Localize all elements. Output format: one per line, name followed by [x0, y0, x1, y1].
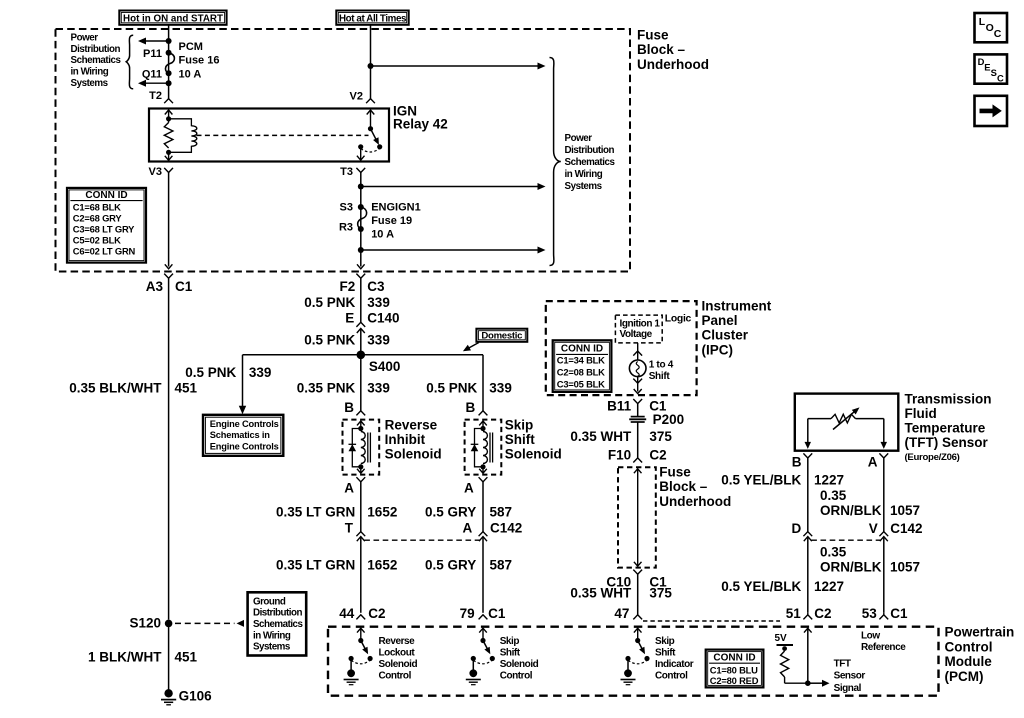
- svg-text:Indicator: Indicator: [655, 659, 694, 670]
- svg-text:Shift: Shift: [500, 648, 521, 659]
- svg-text:0.5 PNK: 0.5 PNK: [426, 381, 477, 396]
- svg-text:10 A: 10 A: [371, 228, 394, 240]
- svg-text:1 to 4: 1 to 4: [649, 360, 674, 371]
- svg-text:Schematics: Schematics: [565, 157, 616, 168]
- svg-text:C1: C1: [890, 606, 908, 621]
- svg-text:B11: B11: [607, 399, 632, 414]
- svg-text:C3=68 LT GRY: C3=68 LT GRY: [73, 224, 135, 235]
- svg-text:Powertrain: Powertrain: [945, 625, 1015, 640]
- svg-text:Skip: Skip: [505, 417, 534, 432]
- svg-text:Fuse 16: Fuse 16: [179, 55, 220, 67]
- svg-text:C1=68 BLK: C1=68 BLK: [73, 202, 121, 213]
- svg-text:(IPC): (IPC): [702, 342, 734, 357]
- svg-text:0.5 GRY: 0.5 GRY: [425, 504, 476, 519]
- svg-text:Skip: Skip: [655, 636, 675, 647]
- svg-text:C140: C140: [367, 311, 399, 326]
- svg-text:C2: C2: [649, 448, 666, 463]
- svg-text:1 BLK/WHT: 1 BLK/WHT: [88, 650, 162, 665]
- svg-text:P200: P200: [653, 412, 685, 427]
- svg-text:(Europe/Z06): (Europe/Z06): [905, 452, 960, 463]
- svg-text:Systems: Systems: [71, 78, 109, 89]
- svg-text:0.35 PNK: 0.35 PNK: [297, 381, 356, 396]
- svg-text:Reverse: Reverse: [379, 636, 416, 647]
- svg-text:in Wiring: in Wiring: [253, 630, 291, 641]
- svg-text:T: T: [345, 521, 354, 536]
- svg-text:Shift: Shift: [649, 371, 671, 382]
- svg-text:Shift: Shift: [505, 432, 535, 447]
- svg-text:Transmission: Transmission: [905, 391, 992, 406]
- svg-text:B: B: [344, 400, 354, 415]
- svg-text:Distribution: Distribution: [253, 608, 302, 619]
- svg-text:ENGIGN1: ENGIGN1: [371, 202, 421, 214]
- svg-text:C1: C1: [488, 606, 506, 621]
- svg-text:F2: F2: [340, 279, 356, 294]
- svg-text:0.35 LT GRN: 0.35 LT GRN: [276, 558, 355, 573]
- svg-text:(TFT) Sensor: (TFT) Sensor: [905, 435, 989, 450]
- svg-text:Engine Controls: Engine Controls: [210, 419, 279, 429]
- svg-text:ORN/BLK: ORN/BLK: [820, 560, 882, 575]
- svg-text:Systems: Systems: [565, 181, 603, 192]
- svg-text:Hot at All Times: Hot at All Times: [339, 13, 407, 24]
- svg-text:451: 451: [175, 650, 198, 665]
- svg-text:Fuse 19: Fuse 19: [371, 215, 412, 227]
- svg-text:Block –: Block –: [659, 479, 708, 494]
- svg-text:A: A: [868, 455, 878, 470]
- svg-text:S120: S120: [129, 615, 161, 630]
- svg-text:S: S: [991, 67, 997, 78]
- svg-text:375: 375: [649, 586, 672, 601]
- svg-text:0.5 PNK: 0.5 PNK: [304, 295, 355, 310]
- svg-text:A: A: [464, 480, 474, 495]
- svg-text:C1=80 BLU: C1=80 BLU: [710, 665, 758, 676]
- svg-text:1652: 1652: [367, 558, 397, 573]
- svg-text:Shift: Shift: [655, 648, 676, 659]
- svg-text:Logic: Logic: [665, 314, 692, 325]
- svg-text:P11: P11: [143, 48, 162, 60]
- svg-text:0.35: 0.35: [820, 545, 847, 560]
- svg-text:C5=02 BLK: C5=02 BLK: [73, 234, 121, 245]
- svg-text:53: 53: [862, 606, 878, 621]
- svg-text:A: A: [463, 521, 473, 536]
- svg-text:1227: 1227: [814, 579, 844, 594]
- svg-text:0.35 WHT: 0.35 WHT: [570, 586, 632, 601]
- svg-text:339: 339: [249, 365, 272, 380]
- svg-text:Schematics: Schematics: [253, 619, 304, 630]
- svg-text:Fluid: Fluid: [905, 406, 937, 421]
- svg-text:Fuse: Fuse: [659, 465, 691, 480]
- svg-text:5V: 5V: [775, 633, 788, 644]
- svg-text:Control: Control: [379, 671, 412, 682]
- svg-text:Cluster: Cluster: [702, 328, 749, 343]
- svg-text:Reverse: Reverse: [385, 417, 438, 432]
- svg-text:CONN ID: CONN ID: [561, 343, 603, 354]
- svg-text:C6=02 LT GRN: C6=02 LT GRN: [73, 245, 136, 256]
- svg-text:O: O: [986, 22, 994, 34]
- svg-text:CONN ID: CONN ID: [713, 652, 755, 663]
- svg-text:C1=34 BLK: C1=34 BLK: [557, 355, 605, 366]
- svg-text:R3: R3: [339, 221, 353, 233]
- svg-text:Voltage: Voltage: [620, 329, 653, 340]
- svg-text:Q11: Q11: [142, 68, 162, 80]
- svg-text:CONN ID: CONN ID: [85, 190, 127, 201]
- svg-text:(PCM): (PCM): [945, 669, 984, 684]
- svg-text:339: 339: [367, 295, 390, 310]
- svg-text:0.5 YEL/BLK: 0.5 YEL/BLK: [721, 579, 801, 594]
- svg-text:0.35: 0.35: [820, 488, 847, 503]
- svg-text:Solenoid: Solenoid: [385, 447, 442, 462]
- svg-text:C: C: [997, 72, 1004, 83]
- svg-text:339: 339: [367, 332, 390, 347]
- svg-text:Temperature: Temperature: [905, 421, 986, 436]
- svg-text:C2=08 BLK: C2=08 BLK: [557, 367, 605, 378]
- svg-text:Sensor: Sensor: [834, 671, 866, 682]
- svg-text:79: 79: [460, 606, 475, 621]
- svg-text:10 A: 10 A: [179, 68, 202, 80]
- svg-text:Schematics: Schematics: [71, 55, 122, 66]
- svg-text:Control: Control: [655, 671, 688, 682]
- svg-text:V3: V3: [149, 166, 162, 178]
- svg-text:C2: C2: [368, 606, 385, 621]
- svg-text:in Wiring: in Wiring: [71, 67, 109, 78]
- svg-text:51: 51: [786, 606, 802, 621]
- svg-text:Engine Controls: Engine Controls: [210, 441, 279, 451]
- svg-text:0.5 PNK: 0.5 PNK: [304, 332, 355, 347]
- svg-text:D: D: [792, 521, 802, 536]
- svg-text:Ignition 1: Ignition 1: [620, 318, 661, 329]
- svg-text:Instrument: Instrument: [702, 298, 772, 313]
- svg-text:C3: C3: [367, 279, 385, 294]
- svg-text:339: 339: [489, 381, 512, 396]
- svg-text:Distribution: Distribution: [565, 145, 615, 156]
- svg-text:0.5 YEL/BLK: 0.5 YEL/BLK: [721, 472, 801, 487]
- svg-text:Control: Control: [500, 671, 533, 682]
- svg-text:T2: T2: [149, 90, 162, 102]
- svg-text:0.35 BLK/WHT: 0.35 BLK/WHT: [69, 381, 162, 396]
- svg-text:V: V: [869, 521, 878, 536]
- svg-text:A3: A3: [146, 279, 164, 294]
- svg-text:Panel: Panel: [702, 313, 738, 328]
- svg-text:PCM: PCM: [179, 41, 203, 53]
- svg-text:Fuse: Fuse: [637, 28, 669, 43]
- svg-text:E: E: [345, 311, 354, 326]
- svg-text:1057: 1057: [890, 503, 920, 518]
- svg-text:Reference: Reference: [861, 642, 906, 653]
- svg-text:0.5 GRY: 0.5 GRY: [425, 558, 476, 573]
- svg-text:C3=05 BLK: C3=05 BLK: [557, 378, 605, 389]
- svg-text:Relay 42: Relay 42: [393, 117, 448, 132]
- svg-text:C1: C1: [175, 279, 193, 294]
- svg-text:0.35 LT GRN: 0.35 LT GRN: [276, 504, 355, 519]
- svg-text:Systems: Systems: [253, 642, 291, 653]
- svg-text:1227: 1227: [814, 472, 844, 487]
- svg-text:Underhood: Underhood: [659, 494, 731, 509]
- svg-text:Inhibit: Inhibit: [385, 432, 426, 447]
- svg-text:Domestic: Domestic: [481, 331, 523, 342]
- svg-text:Ground: Ground: [253, 596, 286, 607]
- svg-text:Low: Low: [861, 631, 880, 642]
- svg-text:Signal: Signal: [834, 683, 862, 694]
- svg-text:G106: G106: [179, 689, 213, 704]
- svg-text:E: E: [984, 62, 990, 73]
- svg-text:1057: 1057: [890, 560, 920, 575]
- svg-text:0.5 PNK: 0.5 PNK: [185, 365, 236, 380]
- svg-text:B: B: [792, 455, 802, 470]
- svg-text:Skip: Skip: [500, 636, 520, 647]
- svg-text:44: 44: [339, 606, 355, 621]
- svg-text:Block –: Block –: [637, 42, 686, 57]
- svg-text:C2: C2: [814, 606, 831, 621]
- svg-text:Solenoid: Solenoid: [500, 659, 539, 670]
- svg-text:Schematics in: Schematics in: [210, 430, 270, 440]
- svg-text:C2=80 RED: C2=80 RED: [710, 675, 759, 686]
- svg-text:Solenoid: Solenoid: [379, 659, 418, 670]
- svg-text:339: 339: [367, 381, 390, 396]
- svg-text:47: 47: [614, 606, 629, 621]
- svg-text:Solenoid: Solenoid: [505, 447, 562, 462]
- svg-text:Power: Power: [565, 133, 593, 144]
- svg-text:Lockout: Lockout: [379, 648, 416, 659]
- svg-text:ORN/BLK: ORN/BLK: [820, 503, 882, 518]
- svg-text:C142: C142: [490, 521, 522, 536]
- svg-text:Power: Power: [71, 33, 99, 44]
- svg-text:C: C: [994, 28, 1002, 40]
- svg-text:Control: Control: [945, 639, 993, 654]
- svg-text:587: 587: [490, 558, 513, 573]
- svg-text:Module: Module: [945, 654, 993, 669]
- svg-text:C2=68 GRY: C2=68 GRY: [73, 213, 123, 224]
- svg-text:S3: S3: [340, 201, 353, 213]
- svg-text:T3: T3: [340, 166, 353, 178]
- svg-text:C142: C142: [890, 521, 922, 536]
- svg-text:0.35 WHT: 0.35 WHT: [570, 429, 632, 444]
- svg-text:375: 375: [649, 429, 672, 444]
- svg-text:S400: S400: [369, 359, 401, 374]
- svg-text:451: 451: [175, 381, 198, 396]
- svg-text:Underhood: Underhood: [637, 57, 709, 72]
- svg-text:V2: V2: [350, 90, 363, 102]
- svg-text:TFT: TFT: [834, 658, 851, 669]
- svg-text:Hot in ON and START: Hot in ON and START: [123, 13, 223, 24]
- svg-text:1652: 1652: [367, 504, 397, 519]
- svg-text:in Wiring: in Wiring: [565, 169, 603, 180]
- svg-text:A: A: [344, 480, 354, 495]
- svg-text:B: B: [466, 400, 476, 415]
- svg-text:F10: F10: [608, 448, 631, 463]
- svg-text:Distribution: Distribution: [71, 44, 121, 55]
- svg-text:587: 587: [490, 504, 513, 519]
